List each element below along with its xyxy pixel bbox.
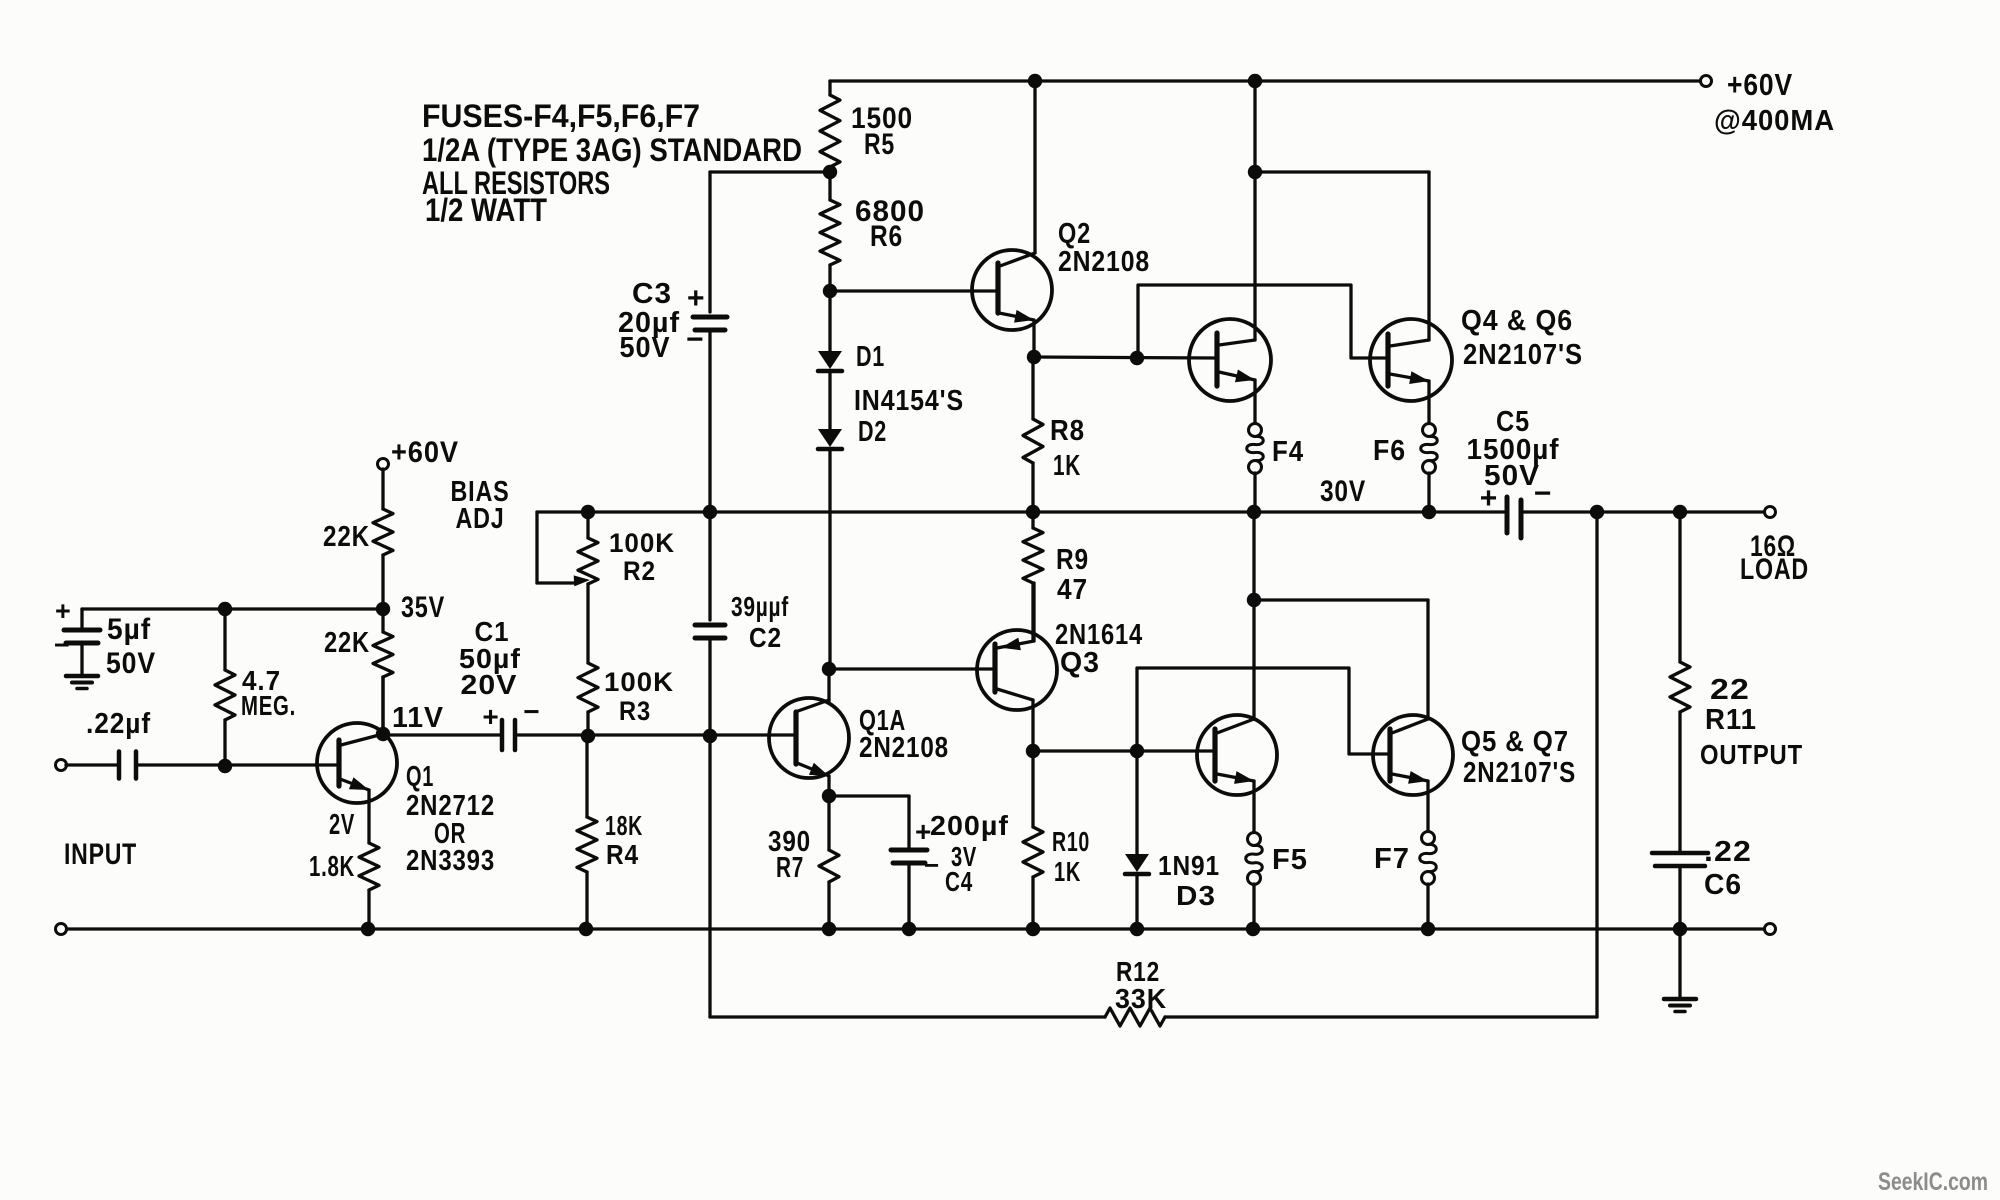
svg-text:R5: R5 <box>864 128 895 161</box>
svg-text:+: + <box>55 596 72 626</box>
svg-text:R2: R2 <box>623 556 656 586</box>
svg-text:R6: R6 <box>870 220 903 253</box>
svg-text:R8: R8 <box>1050 415 1085 447</box>
svg-text:+60V: +60V <box>391 436 459 469</box>
svg-text:30V: 30V <box>1320 475 1366 508</box>
svg-text:33K: 33K <box>1115 983 1167 1014</box>
svg-text:SeekIC.com: SeekIC.com <box>1878 1168 1988 1196</box>
svg-text:22: 22 <box>1710 674 1750 706</box>
svg-text:FUSES-F4,F5,F6,F7: FUSES-F4,F5,F6,F7 <box>422 98 700 134</box>
svg-text:2N2108: 2N2108 <box>859 732 949 764</box>
svg-text:R11: R11 <box>1705 704 1757 736</box>
svg-text:22K: 22K <box>323 521 370 553</box>
svg-text:F6: F6 <box>1373 435 1406 467</box>
svg-text:Q1: Q1 <box>406 761 434 793</box>
svg-text:2N2107'S: 2N2107'S <box>1463 757 1576 789</box>
svg-text:35V: 35V <box>401 591 445 624</box>
svg-text:C4: C4 <box>945 866 973 897</box>
svg-text:@400MA: @400MA <box>1714 105 1835 137</box>
svg-text:22K: 22K <box>324 627 370 659</box>
svg-text:100K: 100K <box>609 528 675 558</box>
svg-text:−: − <box>523 696 540 727</box>
svg-text:2N2107'S: 2N2107'S <box>1463 339 1583 371</box>
svg-text:Q3: Q3 <box>1060 647 1100 679</box>
svg-text:D3: D3 <box>1176 880 1216 911</box>
svg-text:−: − <box>924 850 940 880</box>
svg-text:18K: 18K <box>605 810 643 841</box>
svg-text:+: + <box>1480 482 1499 515</box>
svg-text:47: 47 <box>1057 574 1088 606</box>
svg-text:INPUT: INPUT <box>64 838 137 871</box>
svg-text:2N3393: 2N3393 <box>406 845 495 877</box>
svg-text:−: − <box>54 630 71 660</box>
svg-text:39µµf: 39µµf <box>731 591 789 622</box>
svg-text:1K: 1K <box>1054 856 1081 887</box>
svg-text:.22: .22 <box>1704 836 1752 868</box>
svg-text:F7: F7 <box>1374 843 1410 875</box>
svg-text:+: + <box>687 282 706 315</box>
svg-text:50V: 50V <box>106 647 156 680</box>
svg-text:+: + <box>482 701 499 732</box>
svg-text:R9: R9 <box>1056 544 1089 576</box>
svg-text:200µf: 200µf <box>930 810 1009 841</box>
svg-text:IN4154'S: IN4154'S <box>854 385 964 417</box>
svg-text:1/2A (TYPE 3AG) STANDARD: 1/2A (TYPE 3AG) STANDARD <box>422 132 802 168</box>
svg-text:Q4 & Q6: Q4 & Q6 <box>1461 305 1573 337</box>
svg-text:C2: C2 <box>749 622 782 653</box>
svg-text:11V: 11V <box>392 702 444 734</box>
svg-text:MEG.: MEG. <box>241 690 296 721</box>
svg-text:50V: 50V <box>620 332 671 364</box>
svg-text:C6: C6 <box>1704 869 1742 901</box>
svg-text:D2: D2 <box>858 416 887 448</box>
svg-text:2V: 2V <box>329 809 355 841</box>
svg-text:R7: R7 <box>776 852 804 884</box>
svg-text:LOAD: LOAD <box>1740 553 1809 586</box>
svg-text:5µf: 5µf <box>107 613 151 646</box>
svg-text:F5: F5 <box>1272 844 1308 876</box>
svg-text:ADJ: ADJ <box>456 503 505 535</box>
svg-text:−: − <box>1534 477 1553 510</box>
svg-text:D1: D1 <box>856 341 885 373</box>
svg-text:F4: F4 <box>1272 436 1304 468</box>
svg-text:Q5 & Q7: Q5 & Q7 <box>1461 726 1569 758</box>
svg-text:R10: R10 <box>1052 826 1090 857</box>
svg-text:100K: 100K <box>604 667 674 697</box>
svg-text:20V: 20V <box>461 669 518 700</box>
svg-text:+60V: +60V <box>1727 67 1793 102</box>
svg-text:.22µf: .22µf <box>86 708 151 740</box>
svg-text:1N91: 1N91 <box>1158 850 1220 881</box>
svg-text:R3: R3 <box>619 696 651 726</box>
svg-text:OUTPUT: OUTPUT <box>1700 739 1803 770</box>
svg-text:2N2108: 2N2108 <box>1058 246 1150 278</box>
svg-text:1.8K: 1.8K <box>309 851 355 883</box>
svg-text:C3: C3 <box>632 278 672 310</box>
svg-text:1/2 WATT: 1/2 WATT <box>425 192 547 228</box>
svg-text:1K: 1K <box>1053 450 1081 482</box>
svg-text:R4: R4 <box>606 839 639 870</box>
svg-text:−: − <box>686 323 705 356</box>
